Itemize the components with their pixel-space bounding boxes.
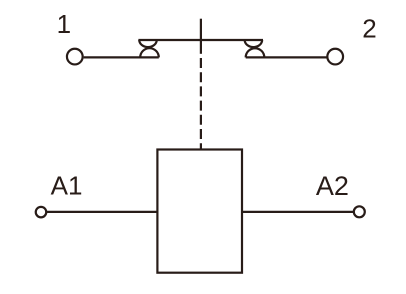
svg-text:1: 1 xyxy=(57,9,71,39)
contact bridge bar xyxy=(138,39,263,41)
left moving contact (cup) on bridge xyxy=(139,40,157,47)
svg-text:2: 2 xyxy=(362,13,376,43)
right moving contact (cup) on bridge xyxy=(245,40,263,47)
right fixed contact (dome) xyxy=(246,48,265,57)
actuator linkage to coil (dashed) xyxy=(200,54,202,149)
wire coil to terminal A2 xyxy=(243,211,354,213)
terminal 2 circle xyxy=(327,49,343,65)
terminal A1 circle xyxy=(36,207,47,218)
wire terminal A1 to coil xyxy=(46,211,157,213)
actuator stem (solid) xyxy=(200,19,202,54)
terminal A2 circle xyxy=(354,206,365,217)
svg-text:A1: A1 xyxy=(51,170,83,200)
wire terminal 1 to left fixed contact xyxy=(84,56,159,58)
left fixed contact (dome) xyxy=(140,48,159,57)
wire right fixed contact to terminal 2 xyxy=(246,56,327,58)
svg-text:A2: A2 xyxy=(316,171,349,201)
coil (operating rectangle) xyxy=(157,150,242,273)
terminal 1 circle xyxy=(67,49,83,65)
